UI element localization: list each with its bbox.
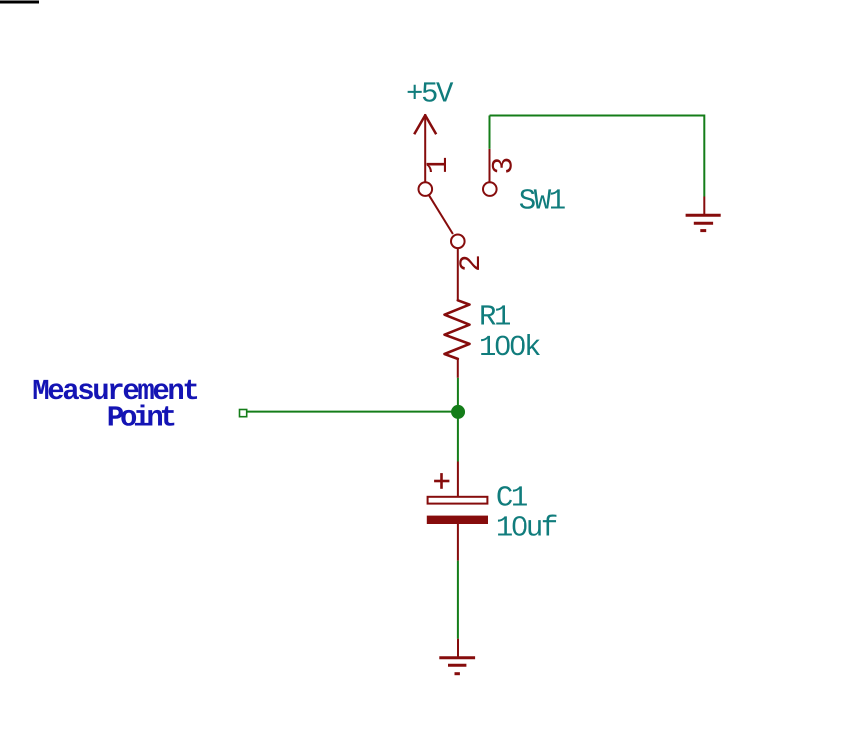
svg-text:SW1: SW1 (519, 184, 565, 217)
switch SW1 pin 2 circle (451, 235, 465, 249)
wire top horizontal (490, 115, 705, 117)
switch SW1 pin 1 number (421, 156, 455, 174)
svg-text:10uf: 10uf (496, 512, 557, 545)
capacitor C1 value label 10uf (496, 512, 557, 545)
switch SW1 pin 2 number (454, 254, 488, 272)
wire pin3 to top corner (489, 116, 491, 149)
label Measurement (32, 375, 197, 408)
zero glyph dot covers (499, 341, 524, 529)
switch SW1 pin 3 line (489, 149, 491, 183)
svg-text:Point: Point (107, 401, 175, 434)
svg-text:3: 3 (486, 157, 520, 175)
power symbol +5V label (406, 78, 454, 111)
switch SW1 pin 3 circle (483, 182, 497, 196)
wire capacitor to ground (457, 561, 459, 639)
capacitor C1 bottom pin (457, 524, 459, 561)
capacitor C1 plus sign (434, 473, 449, 489)
wire resistor to junction (457, 378, 459, 412)
capacitor C1 reference label (496, 482, 527, 515)
wire right vertical (703, 115, 705, 197)
label Point (107, 401, 175, 434)
wire measurement point horizontal (248, 411, 459, 413)
resistor R1 body (445, 300, 470, 378)
capacitor C1 top pin (457, 462, 459, 497)
wire junction to capacitor (457, 412, 459, 462)
switch SW1 pin 3 number (486, 157, 520, 175)
svg-text:C1: C1 (496, 482, 527, 515)
junction dot (451, 405, 465, 419)
switch SW1 pin 1 circle (419, 182, 433, 196)
power symbol +5V arrow (414, 114, 436, 183)
capacitor C1 bottom plate (427, 516, 488, 524)
ground symbol bottom (439, 639, 475, 674)
svg-text:R1: R1 (479, 300, 510, 333)
resistor R1 value label 100k (479, 331, 540, 364)
unconnected wire end square (240, 410, 247, 417)
switch SW1 reference label (519, 184, 565, 217)
black title bar fragment top-left (0, 1, 39, 4)
svg-text:2: 2 (454, 254, 488, 272)
switch SW1 lever (428, 194, 453, 234)
ground symbol right (686, 197, 721, 231)
svg-text:100k: 100k (479, 331, 540, 364)
svg-text:1: 1 (421, 156, 455, 174)
svg-text:+5V: +5V (406, 78, 454, 111)
switch SW1 pin 2 line (457, 248, 459, 301)
resistor R1 reference label (479, 300, 510, 333)
capacitor C1 top plate (428, 497, 488, 504)
